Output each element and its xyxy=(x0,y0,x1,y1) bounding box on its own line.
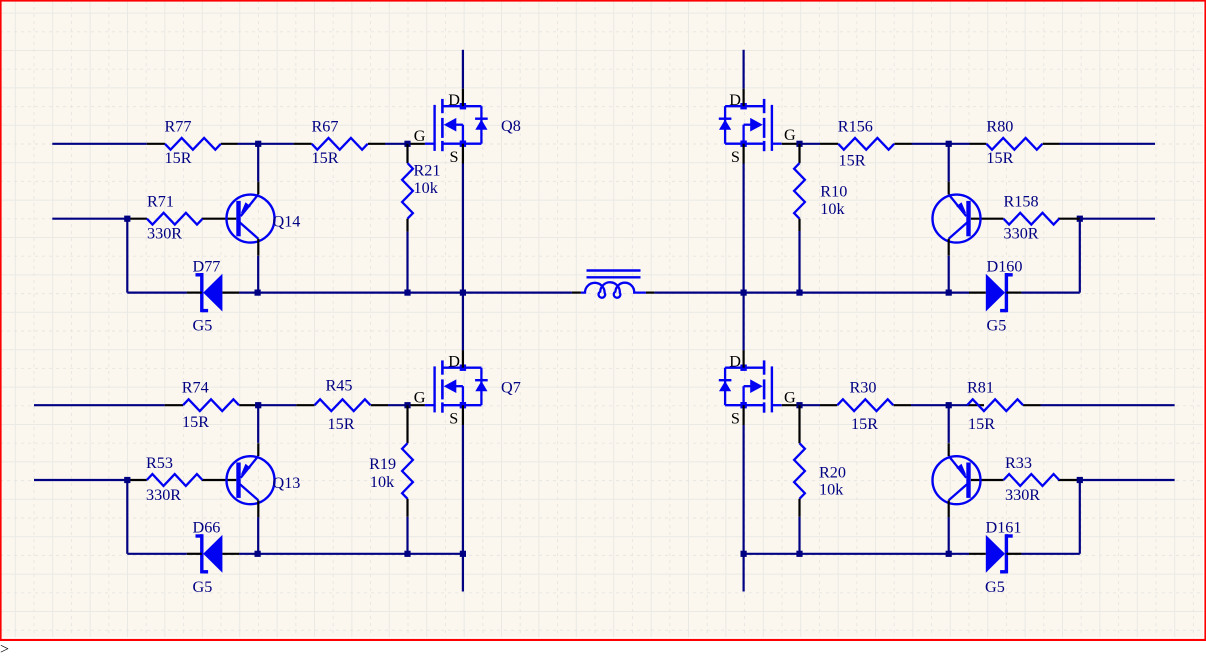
svg-text:Q13: Q13 xyxy=(273,474,301,492)
node: junction right MOSFET source line / center net xyxy=(741,290,747,296)
svg-text:10k: 10k xyxy=(370,473,395,491)
node: junction R156/R80/right BJT xyxy=(946,141,952,147)
svg-text:R53: R53 xyxy=(146,454,173,472)
svg-text:15R: 15R xyxy=(182,413,209,431)
node: junction R158 / riser xyxy=(1077,216,1083,222)
transistor Q13 xyxy=(227,443,275,517)
wire: Q13 collector up to gate net xyxy=(257,405,259,443)
svg-text:S: S xyxy=(449,410,458,428)
wire: right BJT collector up xyxy=(948,144,950,182)
node: junction R20 / bottom net xyxy=(796,551,802,557)
resistor R20 xyxy=(798,405,800,443)
wire: right BJT emitter down xyxy=(948,256,950,293)
node: junction G lower-right MOSFET / R20 xyxy=(796,402,802,408)
svg-text:15R: 15R xyxy=(165,149,192,167)
wire: top-right base net (y=219) xyxy=(1080,218,1155,220)
wire: bottom-right gate net (y=405) xyxy=(782,404,800,406)
svg-text:330R: 330R xyxy=(1004,225,1039,243)
svg-text:D: D xyxy=(729,91,741,109)
svg-text:S: S xyxy=(450,148,459,166)
svg-text:10k: 10k xyxy=(819,481,844,499)
svg-text:D161: D161 xyxy=(986,519,1022,537)
wire: bottom net right (y=554) xyxy=(744,553,970,555)
svg-text:15R: 15R xyxy=(851,415,878,433)
wire: right MOSFET source rail down through center xyxy=(742,164,744,351)
node: junction R19 / bottom net xyxy=(404,551,410,557)
mosfet top-right xyxy=(719,89,782,164)
wire: center net right (y=293) xyxy=(646,292,655,294)
svg-text:D160: D160 xyxy=(987,258,1023,276)
svg-text:15R: 15R xyxy=(968,415,995,433)
svg-text:G5: G5 xyxy=(987,317,1007,335)
node: junction R33 / drop xyxy=(1077,477,1083,483)
inductor coil xyxy=(581,282,646,297)
node: junction lower-right BJT emitter / bottom net xyxy=(946,551,952,557)
svg-text:R156: R156 xyxy=(838,118,873,136)
svg-text:D: D xyxy=(448,91,460,109)
svg-text:G: G xyxy=(784,389,796,407)
svg-text:R30: R30 xyxy=(850,379,877,397)
wire: Q8 source rail down through center xyxy=(462,164,464,351)
mosfet Q8 xyxy=(425,89,488,164)
wire: left outer drop to bottom net xyxy=(126,480,128,554)
diode D160 xyxy=(969,273,1021,312)
svg-text:R33: R33 xyxy=(1005,454,1032,472)
wire: bottom-right base net (y=480) xyxy=(971,479,1004,481)
node: junction right BJT emitter / center net xyxy=(946,290,952,296)
svg-text:R74: R74 xyxy=(182,379,209,397)
wire: R21 bottom to center net xyxy=(406,232,408,293)
wire: right outer drop to bottom net xyxy=(1079,480,1081,554)
svg-text:R45: R45 xyxy=(326,377,353,395)
resistor R53 xyxy=(147,474,203,486)
svg-text:R158: R158 xyxy=(1004,193,1039,211)
diode D77 xyxy=(187,273,239,312)
wire: left outer drop to center net xyxy=(126,219,128,293)
svg-text:R20: R20 xyxy=(819,464,846,482)
svg-text:R21: R21 xyxy=(414,162,441,180)
svg-text:Q14: Q14 xyxy=(273,213,301,231)
svg-text:G: G xyxy=(414,389,426,407)
svg-text:D: D xyxy=(729,352,741,370)
svg-text:G: G xyxy=(414,127,426,145)
node: junction R53/drop xyxy=(124,477,130,483)
node: junction R30/R81/lower-right BJT xyxy=(946,402,952,408)
svg-text:R71: R71 xyxy=(147,193,174,211)
svg-text:Q7: Q7 xyxy=(501,379,521,397)
svg-text:15R: 15R xyxy=(328,415,355,433)
svg-text:Q8: Q8 xyxy=(501,117,521,135)
wire: right MOSFET drain rail (top) xyxy=(742,50,744,89)
sheet margin xyxy=(1203,0,1205,641)
node: junction R71/descent xyxy=(124,216,130,222)
node: junction Q14 emitter / center net xyxy=(255,290,261,296)
svg-text:330R: 330R xyxy=(1005,486,1040,504)
mosfet bottom-right xyxy=(719,350,782,425)
svg-text:D77: D77 xyxy=(193,258,221,276)
transistor Q14 xyxy=(227,182,275,256)
wire: top-left base net (y=219) xyxy=(52,218,127,220)
resistor R81 xyxy=(967,399,1023,411)
transistor bottom-right xyxy=(933,443,981,517)
svg-text:R81: R81 xyxy=(967,379,994,397)
node: junction G Q7 / R19 xyxy=(404,402,410,408)
wire segment after R81 xyxy=(1023,404,1040,406)
transistor top-right xyxy=(933,182,981,256)
diode D66 xyxy=(187,534,239,573)
wire: bottom net left (y=554) xyxy=(127,553,187,555)
resistor R33 xyxy=(1004,474,1060,486)
wire: bottom-left gate net (y=405) xyxy=(34,404,165,406)
svg-text:R19: R19 xyxy=(369,455,396,473)
svg-text:D66: D66 xyxy=(193,519,221,537)
svg-text:G5: G5 xyxy=(193,317,213,335)
svg-text:D: D xyxy=(448,352,460,370)
svg-text:G: G xyxy=(784,126,796,144)
wire: R10 bottom to center net xyxy=(798,231,800,293)
svg-text:15R: 15R xyxy=(986,149,1013,167)
wire: lower-right BJT collector up xyxy=(948,405,950,443)
svg-text:R77: R77 xyxy=(165,118,192,136)
svg-text:R10: R10 xyxy=(820,183,847,201)
wire: center net left (y=293) xyxy=(127,292,187,294)
sheet border xyxy=(0,639,1206,641)
resistor R74 xyxy=(183,399,239,411)
node: junction R21 / center net xyxy=(404,290,410,296)
svg-text:15R: 15R xyxy=(839,152,866,170)
wire: Q8 drain rail (top) xyxy=(462,50,464,89)
resistor R77 xyxy=(165,138,221,150)
node: junction G right MOSFET / R10 xyxy=(796,141,802,147)
node: junction right source rail / bottom net xyxy=(741,551,747,557)
svg-text:10k: 10k xyxy=(820,200,845,218)
resistor R30 xyxy=(837,399,893,411)
wire: right lower MOSFET source rail down xyxy=(742,425,744,592)
node: junction Q7 source line / bottom net xyxy=(460,551,466,557)
svg-text:R67: R67 xyxy=(312,118,339,136)
svg-text:G5: G5 xyxy=(985,578,1005,596)
resistor R71 xyxy=(147,213,203,225)
node: junction R74/R45/Q13 xyxy=(255,402,261,408)
svg-text:15R: 15R xyxy=(312,149,339,167)
node: junction R77/R67/Q14 xyxy=(255,141,261,147)
node: junction Q13 emitter / bottom net xyxy=(255,551,261,557)
node: junction G Q8 / R21 xyxy=(404,141,410,147)
diode D161 xyxy=(969,534,1021,573)
wire: R20 bottom to bottom net xyxy=(798,517,800,554)
resistor R158 xyxy=(1004,213,1060,225)
wire: bottom-left base net (y=480) xyxy=(34,479,127,481)
mosfet Q7 xyxy=(425,350,488,425)
wire: right outer riser center to base net xyxy=(1079,219,1081,293)
svg-text:330R: 330R xyxy=(147,225,182,243)
wire: Q7 source rail down to bottom net xyxy=(462,425,464,592)
wire: Q14 collector to gate net xyxy=(257,144,259,182)
wire: top-right gate net (y=144) xyxy=(782,143,800,145)
wire: R19 bottom to bottom net xyxy=(406,517,408,554)
wire: lower-right BJT emitter down xyxy=(948,517,950,554)
wire: Q14 emitter down xyxy=(257,256,259,293)
node: junction R10 / center net xyxy=(796,290,802,296)
svg-text:330R: 330R xyxy=(146,486,181,504)
svg-text:G5: G5 xyxy=(193,578,213,596)
wire: Q13 emitter down xyxy=(257,517,259,554)
resistor R45 xyxy=(315,399,371,411)
resistor R80 xyxy=(986,138,1042,150)
svg-text:S: S xyxy=(731,410,740,428)
wire: top-left gate net (y=144) xyxy=(52,143,147,145)
resistor R21 xyxy=(406,144,408,163)
resistor R10 xyxy=(798,144,800,163)
svg-text:R80: R80 xyxy=(986,118,1013,136)
resistor R19 xyxy=(406,405,408,443)
inductor core bars xyxy=(587,269,641,271)
svg-text:10k: 10k xyxy=(414,179,439,197)
node: junction Q8 source line / center net xyxy=(460,290,466,296)
resistor R67 xyxy=(312,138,368,150)
resistor R156 xyxy=(838,138,894,150)
svg-text:S: S xyxy=(731,148,740,166)
